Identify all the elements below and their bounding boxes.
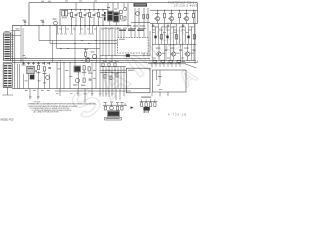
wire xyxy=(100,65,126,67)
wire xyxy=(167,62,169,67)
wire xyxy=(17,64,19,89)
node junctions xyxy=(102,70,103,71)
wire xyxy=(91,63,93,89)
transformer T5 xyxy=(143,107,149,111)
wire xyxy=(75,3,77,12)
wire xyxy=(170,44,172,60)
wire xyxy=(105,66,107,88)
wire xyxy=(188,24,190,45)
label row 2 xyxy=(152,29,156,32)
wire xyxy=(107,3,109,11)
capacitor C xyxy=(165,44,167,48)
wire xyxy=(115,22,117,26)
wire xyxy=(44,71,46,89)
wire xyxy=(60,62,62,66)
wire xyxy=(186,21,188,24)
wire stub xyxy=(111,89,113,97)
wire xyxy=(134,23,136,38)
wire xyxy=(151,62,153,67)
wire xyxy=(194,24,196,45)
wire xyxy=(95,63,97,89)
wire xyxy=(71,9,73,11)
wire xyxy=(114,27,116,56)
resistor R29 xyxy=(169,60,173,62)
wire xyxy=(102,66,104,88)
wire xyxy=(56,62,58,66)
rail junction dots xyxy=(156,9,159,12)
wire xyxy=(99,62,101,88)
resistor R36 xyxy=(154,103,156,107)
wire xyxy=(28,74,30,89)
wire xyxy=(138,23,140,38)
wire xyxy=(130,26,132,38)
wire xyxy=(173,27,175,45)
wire xyxy=(52,41,54,63)
wire xyxy=(170,24,172,45)
resistor R2 xyxy=(79,12,81,16)
resistor R32 xyxy=(121,106,123,110)
resistor R37 xyxy=(120,16,122,20)
transistor Q10 xyxy=(93,55,97,59)
transistor Q1 xyxy=(54,21,58,25)
capacitor C8 xyxy=(152,24,154,26)
resistor (shaded) xyxy=(187,36,189,39)
capacitor C3 xyxy=(75,14,78,16)
capacitor C xyxy=(180,44,182,48)
resistor R3 xyxy=(88,12,90,16)
transistor Q7 xyxy=(155,17,159,21)
wire xyxy=(84,9,86,11)
wire xyxy=(164,44,166,60)
wire xyxy=(89,9,91,11)
wire xyxy=(98,9,100,11)
transformer T1 (shielded) xyxy=(108,12,113,21)
wire stub xyxy=(29,89,31,100)
wire top bus xyxy=(29,2,197,4)
wire xyxy=(74,26,76,63)
svg-text:A-720-2B: A-720-2B xyxy=(168,113,186,116)
IC U6 (dual section) xyxy=(62,10,65,16)
coil L1 xyxy=(104,12,106,21)
capacitor C10 xyxy=(182,24,184,26)
wire xyxy=(127,3,129,27)
resistor R26a xyxy=(116,74,118,78)
resistor (shaded) xyxy=(154,36,156,39)
transistor Q15 xyxy=(75,78,79,82)
arrow mark xyxy=(131,107,134,109)
capacitor C2 xyxy=(42,23,44,25)
wire xyxy=(63,66,65,89)
wire xyxy=(143,23,145,56)
label smudges above top rail xyxy=(41,0,44,3)
wire xyxy=(176,24,178,45)
wire xyxy=(99,27,101,62)
wire xyxy=(105,27,107,62)
wire right vertical rail xyxy=(196,3,198,24)
module U3 (dashed outline) xyxy=(118,38,149,53)
wire xyxy=(159,70,161,84)
wire right bus xyxy=(150,23,197,25)
resistor R29A xyxy=(177,60,181,62)
wire xyxy=(111,66,113,88)
wire xyxy=(143,8,145,23)
wire xyxy=(28,62,30,65)
wire xyxy=(182,44,184,60)
resistor R34 xyxy=(145,103,147,107)
label row above module xyxy=(119,30,126,31)
transistor Q5 xyxy=(136,12,140,16)
wire xyxy=(12,26,14,63)
wire xyxy=(75,16,77,25)
resistor R4 xyxy=(97,12,99,16)
wire xyxy=(171,10,173,16)
resistor R22 xyxy=(88,67,90,71)
wire right top rail xyxy=(150,9,197,11)
resistor R25 xyxy=(108,63,110,67)
wire xyxy=(161,27,163,45)
wire bottom bus 1 xyxy=(12,88,150,90)
wire xyxy=(38,62,40,65)
resistor R14 xyxy=(126,54,129,57)
wire xyxy=(159,62,161,67)
wire xyxy=(117,66,119,88)
resistor R11 xyxy=(178,13,180,17)
wire stub xyxy=(102,89,104,97)
wire xyxy=(96,26,98,63)
resistor R28 xyxy=(161,60,165,62)
labels xyxy=(25,80,28,83)
resistor R25a xyxy=(110,76,112,80)
svg-text:ALL CAPACITOR VALUES IN MFD.: ALL CAPACITOR VALUES IN MFD. xyxy=(34,111,61,114)
capacitor C11 xyxy=(87,57,90,59)
wire upper mid bus xyxy=(60,8,108,10)
wire xyxy=(103,104,127,106)
label box xyxy=(105,117,121,120)
resistor R38 xyxy=(124,17,126,21)
wire bus C xyxy=(3,61,197,63)
wire xyxy=(49,74,51,89)
wire xyxy=(102,27,104,56)
wire xyxy=(147,23,149,56)
resistor R24a xyxy=(104,75,106,79)
wire xyxy=(134,8,136,23)
wire stub xyxy=(115,89,117,100)
wire xyxy=(157,10,159,16)
wire xyxy=(89,17,91,26)
transistor Q14 xyxy=(86,58,90,62)
wire xyxy=(123,29,125,38)
svg-text:20-216 2 4605: 20-216 2 4605 xyxy=(174,4,198,8)
wire right edge lower xyxy=(196,61,198,63)
node junctions on bus xyxy=(154,63,155,64)
wire bus under ICs xyxy=(131,22,150,24)
label smudges xyxy=(58,68,61,71)
wire stub xyxy=(167,92,169,96)
wire stub xyxy=(59,89,61,96)
transistor Q3 xyxy=(124,7,127,10)
wire xyxy=(182,24,184,45)
decorative watermark (not labeled further) xyxy=(64,8,202,128)
wire xyxy=(80,9,82,11)
wire xyxy=(93,3,95,12)
wire xyxy=(158,44,160,52)
wire xyxy=(100,69,126,71)
wire xyxy=(148,63,186,65)
wire xyxy=(33,74,35,80)
capacitor C9 xyxy=(167,24,169,26)
wire xyxy=(19,64,21,89)
wire xyxy=(157,21,159,24)
wire xyxy=(191,44,193,60)
connector J1 (terminal strip) xyxy=(4,33,11,61)
wire xyxy=(149,31,151,56)
wire xyxy=(163,62,165,67)
wire stub xyxy=(123,89,125,97)
wire xyxy=(164,18,166,24)
wire xyxy=(173,56,175,60)
wire left border of upper section xyxy=(28,3,30,26)
wire xyxy=(117,3,119,9)
wire xyxy=(93,16,95,25)
wire xyxy=(187,56,189,60)
wire xyxy=(60,66,62,89)
wire xyxy=(194,10,196,64)
transistor Q16 xyxy=(110,106,114,110)
wire xyxy=(179,18,181,24)
resistor R10 xyxy=(163,13,165,17)
transistor Q17 xyxy=(46,76,50,80)
wire xyxy=(102,9,104,11)
wire xyxy=(123,3,125,8)
wire diagonal feed xyxy=(185,64,196,68)
capacitor C4 xyxy=(84,14,87,16)
wire staircase 1 xyxy=(38,26,40,41)
wire xyxy=(33,62,35,65)
resistor R33 xyxy=(141,103,143,107)
wire xyxy=(69,62,71,66)
wire xyxy=(117,27,119,38)
wire xyxy=(59,9,61,25)
transformer T4 (bottom detail) xyxy=(108,111,119,116)
wire xyxy=(20,26,22,63)
wire xyxy=(179,62,181,67)
wire xyxy=(120,66,122,88)
resistor (shaded) xyxy=(166,36,168,39)
wire xyxy=(164,24,166,45)
resistor R24 xyxy=(102,63,104,67)
wire xyxy=(38,71,40,89)
wire xyxy=(63,62,65,66)
resistor R1 xyxy=(70,12,72,16)
wire stub xyxy=(151,92,153,96)
capacitor C5 xyxy=(93,14,96,16)
title text block xyxy=(168,0,198,7)
wire xyxy=(185,27,187,45)
wire stub xyxy=(108,89,110,97)
wire xyxy=(11,32,13,34)
wire xyxy=(173,44,175,52)
wire main bus B+ xyxy=(12,25,131,27)
transistor Q2 xyxy=(119,10,123,14)
wire xyxy=(44,62,46,65)
wire xyxy=(155,62,157,67)
label marks xyxy=(23,54,26,57)
wire stub xyxy=(119,89,121,100)
wire xyxy=(179,27,181,45)
wire stub xyxy=(84,89,86,103)
capacitor C17 xyxy=(35,69,37,71)
detail sub-circuit B xyxy=(141,97,151,98)
resistor R19 xyxy=(37,65,39,69)
wire xyxy=(152,24,154,45)
wire bus B xyxy=(11,60,196,62)
wire stub xyxy=(99,89,101,97)
wire xyxy=(114,66,116,88)
wire xyxy=(175,62,177,67)
wire xyxy=(164,10,166,13)
label row xyxy=(22,62,25,65)
wire xyxy=(2,94,13,96)
capacitor C15 xyxy=(48,67,51,69)
wire xyxy=(11,35,21,37)
resistor R23 xyxy=(83,78,85,82)
wire stub xyxy=(105,89,107,97)
resistor R21 xyxy=(83,66,85,70)
wire xyxy=(138,8,140,23)
wire xyxy=(108,66,110,88)
resistor R8 xyxy=(160,35,162,39)
wire xyxy=(187,44,189,52)
wire xyxy=(191,27,193,45)
wire xyxy=(98,17,100,26)
resistor R27 xyxy=(153,60,157,62)
wire xyxy=(85,49,87,53)
wire xyxy=(74,62,76,66)
resistor R35 xyxy=(149,103,151,107)
notes text block xyxy=(28,101,98,113)
wire xyxy=(49,62,51,65)
net label stubs below bus xyxy=(57,26,59,33)
wire xyxy=(155,27,157,45)
wire xyxy=(193,51,195,61)
wire bus A xyxy=(11,58,150,60)
speaker/enclosure box xyxy=(126,68,150,93)
wire xyxy=(14,31,16,89)
wire xyxy=(165,51,167,61)
box shield outline xyxy=(152,70,186,92)
wire stub xyxy=(77,89,79,96)
wire xyxy=(105,103,107,105)
wire xyxy=(171,62,173,67)
wire xyxy=(179,10,181,13)
capacitor C16 xyxy=(89,78,92,80)
wire xyxy=(22,28,24,62)
wire xyxy=(112,3,114,12)
transformer T2 (shielded) xyxy=(114,13,119,22)
resistor R9 xyxy=(175,35,177,39)
wire xyxy=(109,21,111,26)
wire xyxy=(23,74,25,89)
resistor R13 xyxy=(85,52,87,56)
wire xyxy=(23,62,25,65)
wire xyxy=(71,17,73,26)
wire right bus 2 xyxy=(152,43,196,45)
junction dots on bus C xyxy=(22,61,25,64)
wire xyxy=(108,27,110,56)
transistor Q8 xyxy=(169,17,173,21)
resistor R39 xyxy=(143,15,145,19)
wire xyxy=(11,30,20,32)
transformer T3 xyxy=(30,75,35,80)
wire xyxy=(144,111,146,113)
wire xyxy=(69,66,71,89)
wire stub xyxy=(159,92,161,96)
IC U5 xyxy=(75,67,81,72)
wire xyxy=(100,55,150,57)
wire xyxy=(83,70,85,76)
wire xyxy=(171,21,173,24)
wire xyxy=(193,18,195,24)
resistor R26 xyxy=(114,63,116,67)
resistor R40 xyxy=(147,15,149,19)
IC U4 (shaded) xyxy=(27,66,34,74)
wire xyxy=(141,99,143,101)
wire xyxy=(180,51,182,61)
transistor Q11 xyxy=(157,52,161,56)
value label smudges under bus xyxy=(59,28,62,31)
wire xyxy=(100,71,126,73)
resistor R12 xyxy=(192,13,194,17)
wire stub xyxy=(37,89,39,100)
IC U1 (tuner block label) xyxy=(134,3,148,6)
wire xyxy=(186,10,188,16)
wire xyxy=(120,29,122,38)
wire xyxy=(167,27,169,45)
wire xyxy=(78,72,80,89)
wire xyxy=(80,17,82,26)
wire xyxy=(152,44,154,60)
junction dots on bus B xyxy=(20,59,23,62)
wire xyxy=(156,70,158,80)
transistor Q13 xyxy=(185,52,189,56)
wire xyxy=(7,87,9,95)
resistor R30 xyxy=(104,106,106,110)
resistor R10 xyxy=(193,35,195,39)
wire xyxy=(158,56,160,60)
capacitor C1 xyxy=(24,23,26,25)
wire xyxy=(84,16,86,25)
wire xyxy=(123,66,125,88)
svg-text:MODEL 4720: MODEL 4720 xyxy=(1,118,15,121)
wire xyxy=(193,10,195,13)
resistor R31 xyxy=(116,106,118,110)
wire bottom bus 2 xyxy=(55,90,131,92)
capacitor C xyxy=(193,44,195,48)
wire staircase 3 xyxy=(56,26,58,49)
wire xyxy=(102,16,104,25)
wire stub xyxy=(91,89,93,96)
wire xyxy=(111,27,113,62)
connector J2 (terminal strip) xyxy=(3,64,12,88)
node junction xyxy=(60,48,61,49)
capacitor C6 xyxy=(102,14,105,16)
transistor Q9 xyxy=(184,17,188,21)
wire staircase 2 xyxy=(49,26,51,44)
wire xyxy=(140,101,158,103)
wire xyxy=(147,8,149,23)
resistor R20 xyxy=(43,67,45,71)
transistor Q12 xyxy=(171,52,175,56)
